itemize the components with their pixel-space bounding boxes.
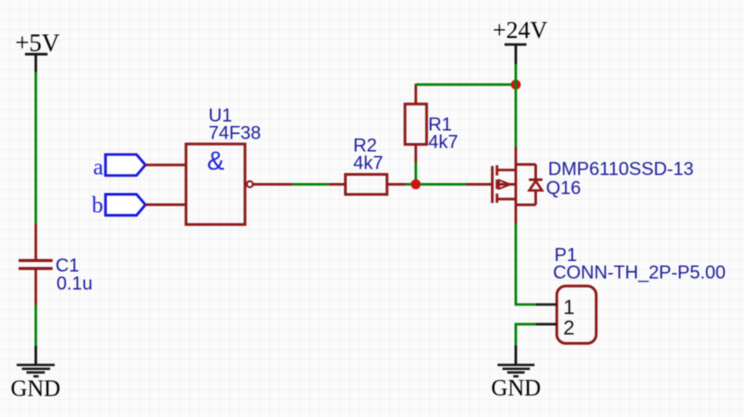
svg-text:Q16: Q16 <box>546 177 581 198</box>
svg-text:2: 2 <box>563 316 574 339</box>
svg-text:1: 1 <box>563 296 574 319</box>
svg-text:+24V: +24V <box>493 18 549 44</box>
svg-text:4k7: 4k7 <box>428 131 458 152</box>
svg-text:GND: GND <box>491 376 541 401</box>
svg-text:GND: GND <box>11 376 61 401</box>
svg-text:74F38: 74F38 <box>209 122 261 143</box>
svg-text:+5V: +5V <box>15 30 60 57</box>
svg-text:b: b <box>92 193 104 218</box>
svg-text:a: a <box>93 155 103 180</box>
svg-text:4k7: 4k7 <box>353 152 383 173</box>
svg-text:DMP6110SSD-13: DMP6110SSD-13 <box>548 158 694 179</box>
svg-text:&: & <box>207 146 224 176</box>
svg-text:0.1u: 0.1u <box>57 272 93 293</box>
svg-text:CONN-TH_2P-P5.00: CONN-TH_2P-P5.00 <box>553 261 726 283</box>
